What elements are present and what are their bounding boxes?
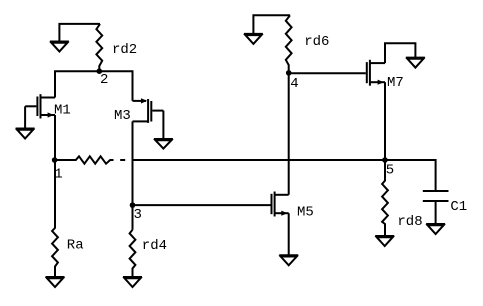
node 2 junction dot: [97, 68, 103, 74]
svg-text:rd8: rd8: [397, 214, 422, 230]
svg-text:M7: M7: [387, 75, 404, 91]
transistor M1: [25, 94, 55, 118]
ground GND8 (below rd4): [123, 277, 142, 287]
ground GND1 (top-left, supply of rd2): [50, 24, 100, 52]
svg-text:M5: M5: [297, 204, 314, 220]
transistor M5: [272, 192, 289, 217]
svg-text:5: 5: [386, 163, 394, 179]
svg-text:M1: M1: [54, 103, 71, 119]
wire M7 drain to ground: [385, 43, 415, 63]
wire M3 gate to ground: [162, 111, 164, 139]
wire node 3 to M5 gate: [133, 204, 271, 206]
node 3 junction dot: [130, 202, 136, 208]
svg-text:rd4: rd4: [142, 238, 167, 254]
wire M1 gate to ground: [24, 106, 26, 128]
svg-text:C1: C1: [450, 199, 467, 215]
svg-text:rd2: rd2: [112, 42, 137, 58]
wire M1 source down to node 1: [54, 115, 56, 160]
wire dash segment: [120, 159, 125, 161]
svg-text:2: 2: [100, 72, 108, 88]
svg-text:3: 3: [134, 207, 142, 223]
resistor rd4: [130, 230, 136, 277]
ground GND4 (top, supply of rd6): [244, 15, 290, 44]
node 1 junction dot: [52, 157, 58, 163]
resistor rd2: [96, 24, 102, 71]
wire node-2 rail with risers to M1 drain and M3 drain: [55, 71, 133, 101]
resistor (horizontal, node 1 to node 3 column): [55, 156, 114, 163]
resistor Ra: [52, 160, 58, 277]
ground GND10 (below C1): [426, 224, 445, 234]
svg-text:M3: M3: [114, 108, 131, 124]
wire M3 source down through rail to rd4: [132, 121, 134, 229]
ground GND5 (M7 drain): [406, 58, 425, 68]
svg-text:Ra: Ra: [67, 237, 84, 253]
ground GND2 (M1 gate): [16, 129, 35, 139]
node 5 junction dot: [382, 157, 388, 163]
transistor M7: [367, 60, 385, 86]
resistor rd6: [286, 15, 292, 73]
ground GND9 (below rd8): [375, 236, 394, 246]
wire node 4 down through rail to M5 drain: [288, 73, 290, 195]
transistor M3: [133, 98, 164, 123]
svg-text:rd6: rd6: [304, 34, 329, 50]
node 4 junction dot: [286, 70, 292, 76]
wire node 4 to M7 gate: [289, 72, 366, 74]
resistor rd8: [382, 160, 388, 236]
wire M7 source down to node 5: [384, 82, 386, 160]
ground GND7 (below Ra): [46, 277, 65, 287]
svg-text:4: 4: [290, 76, 298, 92]
wire M5 source to ground: [288, 213, 290, 255]
ground GND6 (M5 source): [279, 255, 298, 265]
wire main rail (node 3 column to C1 corner): [133, 160, 436, 191]
capacitor C1: [423, 191, 449, 224]
ground GND3 (M3 gate): [154, 139, 173, 149]
